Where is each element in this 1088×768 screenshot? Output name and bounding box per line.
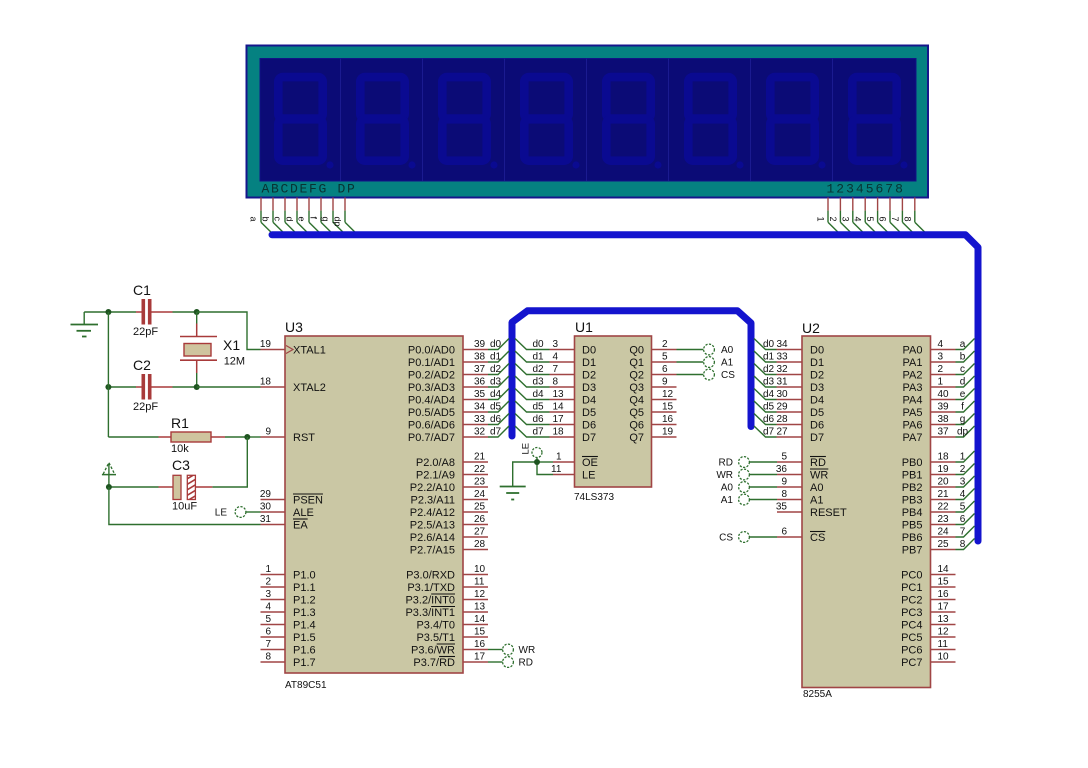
svg-text:33: 33 <box>474 414 486 425</box>
svg-text:D3: D3 <box>810 382 824 394</box>
svg-text:1: 1 <box>265 564 271 575</box>
svg-text:4: 4 <box>553 352 559 363</box>
U2 pin 30 D4 with d4 tap from bus <box>754 389 824 407</box>
svg-text:6: 6 <box>265 627 271 638</box>
U2 pin 22 PB4 with wire 5 to bus <box>902 501 975 519</box>
svg-text:25: 25 <box>938 539 950 550</box>
svg-text:a: a <box>960 339 966 350</box>
svg-text:A0: A0 <box>721 345 734 356</box>
svg-text:d5: d5 <box>490 402 502 413</box>
wire d4 tap U3 P0.4 to bus <box>488 389 509 401</box>
svg-text:PB1: PB1 <box>902 470 923 482</box>
svg-text:P0.2/AD2: P0.2/AD2 <box>408 370 455 382</box>
U1 pin 19 Q7 <box>629 427 676 445</box>
svg-text:5: 5 <box>662 352 668 363</box>
svg-text:dp: dp <box>333 217 343 227</box>
U3 pin 18 XTAL2 <box>260 377 326 395</box>
svg-text:D5: D5 <box>810 407 824 419</box>
terminal WR at U3 P3.6 <box>488 644 535 656</box>
node dot C2 right / crystal bottom <box>194 384 200 390</box>
ppi chip U2 8255A body <box>802 320 931 700</box>
svg-text:PB2: PB2 <box>902 482 923 494</box>
svg-text:6: 6 <box>781 527 787 538</box>
U2 pin 31 D3 with d3 tap from bus <box>754 376 824 394</box>
U2 pin 4 PA0 with wire a to bus <box>903 339 975 357</box>
U3 pin 25 P2.4/A12 <box>410 502 488 520</box>
svg-text:CS: CS <box>719 533 733 544</box>
svg-text:c: c <box>273 217 283 222</box>
svg-text:20: 20 <box>938 477 950 488</box>
svg-text:35: 35 <box>776 502 788 513</box>
svg-text:d: d <box>285 217 295 222</box>
svg-text:Q6: Q6 <box>629 420 644 432</box>
svg-text:D1: D1 <box>810 357 824 369</box>
U3 pin 17 P3.7/RD <box>413 652 488 670</box>
svg-text:WR: WR <box>810 470 828 482</box>
svg-text:Q3: Q3 <box>629 382 644 394</box>
svg-text:PC1: PC1 <box>901 582 922 594</box>
svg-text:XTAL2: XTAL2 <box>293 382 326 394</box>
power terminal arrow <box>102 463 116 487</box>
U1 pin 5 Q1 <box>629 352 676 370</box>
svg-text:PC6: PC6 <box>901 645 922 657</box>
bus arch between U3, U1 and U2 (data bus d0-d7) <box>512 311 751 436</box>
U2 pin 27 D7 with d7 tap from bus <box>754 426 824 444</box>
svg-text:36: 36 <box>474 377 486 388</box>
svg-text:D2: D2 <box>582 370 596 382</box>
display segment pin b with wire to bus <box>261 198 286 235</box>
svg-text:39: 39 <box>938 402 950 413</box>
svg-text:4: 4 <box>938 339 944 350</box>
U3 pin 31 EA <box>260 514 308 532</box>
U3 pin 39 P0.0/AD0 <box>408 339 488 357</box>
svg-text:P1.2: P1.2 <box>293 595 316 607</box>
svg-text:4: 4 <box>960 489 966 500</box>
svg-text:24: 24 <box>938 527 950 538</box>
svg-text:P0.5/AD5: P0.5/AD5 <box>408 407 455 419</box>
U3 pin 3 P1.2 <box>261 589 316 607</box>
svg-text:12: 12 <box>662 389 674 400</box>
7-segment display module DS1 frame <box>247 46 929 198</box>
ground symbol at U1 OE <box>500 487 526 500</box>
svg-text:PA4: PA4 <box>903 395 923 407</box>
svg-text:3: 3 <box>265 589 271 600</box>
svg-text:34: 34 <box>777 339 789 350</box>
svg-text:26: 26 <box>474 514 486 525</box>
terminal CS at U1 Q2 <box>677 369 736 381</box>
U2 pin 6 CS with terminal <box>719 527 825 545</box>
U3 pin 30 ALE <box>260 502 314 520</box>
display digit pin 4 with wire to bus <box>853 198 878 235</box>
svg-text:17: 17 <box>938 602 950 613</box>
svg-text:32: 32 <box>777 364 789 375</box>
U3 pin 13 P3.3/INT1 <box>405 602 488 620</box>
svg-text:19: 19 <box>260 339 272 350</box>
svg-text:D5: D5 <box>582 407 596 419</box>
svg-text:28: 28 <box>474 539 486 550</box>
U3 pin 22 P2.1/A9 <box>416 464 488 482</box>
svg-text:5: 5 <box>960 502 966 513</box>
U1 pin 6 Q2 <box>629 364 676 382</box>
svg-text:C1: C1 <box>133 282 151 298</box>
U2 pin 20 PB2 with wire 3 to bus <box>902 476 975 494</box>
display digit pin 2 with wire to bus <box>828 198 853 235</box>
svg-text:A0: A0 <box>721 483 734 494</box>
U2 pin 13 PC4 <box>901 614 955 632</box>
U2 pin 5 RD with terminal <box>719 452 826 470</box>
display digit 5 segments <box>606 77 661 168</box>
svg-text:22pF: 22pF <box>133 401 158 413</box>
svg-text:17: 17 <box>553 414 565 425</box>
svg-text:d1: d1 <box>490 352 502 363</box>
U3 pin 29 PSEN <box>260 489 323 507</box>
U1 pin 11 LE <box>551 464 595 482</box>
svg-text:Q0: Q0 <box>629 345 644 357</box>
U2 pin 34 D0 with d0 tap from bus <box>754 339 824 357</box>
wire XTAL1 net from crystal node to U3 pin 19 <box>197 312 261 350</box>
U3 pin 11 P3.1/TXD <box>407 577 488 595</box>
svg-text:29: 29 <box>260 489 272 500</box>
U1 pin 15 Q5 <box>629 402 676 420</box>
svg-text:PA2: PA2 <box>903 370 923 382</box>
svg-text:D4: D4 <box>582 395 596 407</box>
svg-text:A1: A1 <box>721 358 734 369</box>
U3 pin 23 P2.2/A10 <box>410 477 488 495</box>
U1 pin 9 Q3 <box>629 377 676 395</box>
svg-text:d2: d2 <box>763 364 775 375</box>
svg-text:D6: D6 <box>582 420 596 432</box>
svg-text:3: 3 <box>960 477 966 488</box>
svg-text:8: 8 <box>902 217 912 222</box>
svg-text:d6: d6 <box>763 414 775 425</box>
svg-text:3: 3 <box>840 217 850 222</box>
svg-text:P2.1/A9: P2.1/A9 <box>416 470 455 482</box>
U3 pin 19 XTAL1 <box>260 339 326 357</box>
U2 pin 38 PA6 with wire g to bus <box>903 414 975 432</box>
svg-text:3: 3 <box>938 352 944 363</box>
terminal LE at U3 ALE pin <box>215 507 261 519</box>
svg-text:CS: CS <box>721 370 735 381</box>
svg-text:P1.3: P1.3 <box>293 607 316 619</box>
resistor R1 10k <box>108 415 247 455</box>
svg-text:16: 16 <box>662 414 674 425</box>
U3 pin 26 P2.5/A13 <box>410 514 488 532</box>
svg-text:7: 7 <box>890 217 900 222</box>
svg-text:D6: D6 <box>810 420 824 432</box>
svg-text:40: 40 <box>938 389 950 400</box>
svg-text:31: 31 <box>260 514 272 525</box>
svg-text:12345678: 12345678 <box>827 182 905 197</box>
display digit pin 5 with wire to bus <box>865 198 890 235</box>
svg-text:EA: EA <box>293 520 308 532</box>
node dot C1 left <box>105 309 111 315</box>
ground symbol (oscillator) <box>71 312 99 337</box>
svg-text:8: 8 <box>553 377 559 388</box>
U3 pin 36 P0.3/AD3 <box>408 377 488 395</box>
svg-text:P3.2/INT0: P3.2/INT0 <box>405 595 455 607</box>
svg-text:4: 4 <box>265 602 271 613</box>
svg-text:18: 18 <box>938 452 950 463</box>
wire ground to node <box>84 311 108 313</box>
U2 pin 33 D1 with d1 tap from bus <box>754 351 824 369</box>
U3 pin 15 P3.5/T1 <box>416 627 488 645</box>
display segment pin e with wire to bus <box>297 198 322 235</box>
svg-text:P1.0: P1.0 <box>293 570 316 582</box>
svg-text:30: 30 <box>777 389 789 400</box>
display digit 1 segments <box>278 77 333 168</box>
svg-text:1: 1 <box>556 452 562 463</box>
svg-text:dp: dp <box>957 427 969 438</box>
svg-text:17: 17 <box>474 652 486 663</box>
svg-text:C3: C3 <box>172 457 190 473</box>
svg-text:P3.6/WR: P3.6/WR <box>411 645 455 657</box>
svg-text:6: 6 <box>662 364 668 375</box>
svg-text:R1: R1 <box>171 415 189 431</box>
U3 pin 10 P3.0/RXD <box>406 564 488 582</box>
display digit 8 segments <box>852 77 907 168</box>
svg-text:PA7: PA7 <box>903 432 923 444</box>
terminal RD at U3 P3.7 <box>488 657 533 669</box>
svg-text:d0: d0 <box>490 339 502 350</box>
U1 pin 18 D7 with d7 tap from bus <box>515 426 596 444</box>
svg-text:18: 18 <box>553 427 565 438</box>
svg-text:12: 12 <box>938 627 950 638</box>
U1 pin 1 OE <box>553 452 598 470</box>
display digit pin 1 with wire to bus <box>816 198 841 235</box>
U3 pin 37 P0.2/AD2 <box>408 364 488 382</box>
U1 pin 17 D6 with d6 tap from bus <box>515 414 596 432</box>
svg-text:d7: d7 <box>763 427 775 438</box>
wire XTAL2 net to U3 pin 18 <box>197 386 261 388</box>
svg-text:1: 1 <box>938 377 944 388</box>
svg-text:d0: d0 <box>763 339 775 350</box>
U2 pin 40 PA4 with wire e to bus <box>903 389 975 407</box>
U2 pin 32 D2 with d2 tap from bus <box>754 364 824 382</box>
svg-text:ALE: ALE <box>293 507 314 519</box>
svg-text:U2: U2 <box>802 320 820 336</box>
wire EA net from power node to U3 pin 31 <box>109 487 261 525</box>
svg-text:P2.2/A10: P2.2/A10 <box>410 482 455 494</box>
U2 pin 39 PA5 with wire f to bus <box>903 401 975 419</box>
svg-text:12M: 12M <box>224 356 245 368</box>
svg-text:P1.7: P1.7 <box>293 657 316 669</box>
terminal A0 at U1 Q0 <box>677 344 734 356</box>
U2 pin 2 PA2 with wire c to bus <box>903 364 975 382</box>
display digit pin 6 with wire to bus <box>878 198 903 235</box>
svg-text:P3.1/TXD: P3.1/TXD <box>407 582 455 594</box>
svg-text:P0.1/AD1: P0.1/AD1 <box>408 357 455 369</box>
svg-text:29: 29 <box>777 402 789 413</box>
svg-text:d4: d4 <box>533 389 545 400</box>
svg-text:P2.6/A14: P2.6/A14 <box>410 532 455 544</box>
svg-text:P0.7/AD7: P0.7/AD7 <box>408 432 455 444</box>
svg-text:37: 37 <box>474 364 486 375</box>
svg-text:Q1: Q1 <box>629 357 644 369</box>
U2 pin 17 PC3 <box>901 602 955 620</box>
svg-text:LE: LE <box>521 443 532 455</box>
svg-text:3: 3 <box>553 339 559 350</box>
svg-text:D7: D7 <box>582 432 596 444</box>
U2 pin 18 PB0 with wire 1 to bus <box>902 451 975 469</box>
svg-text:7: 7 <box>265 639 271 650</box>
svg-text:38: 38 <box>938 414 950 425</box>
svg-text:8: 8 <box>960 539 966 550</box>
svg-text:b: b <box>960 352 966 363</box>
svg-text:RESET: RESET <box>810 507 847 519</box>
svg-text:Q4: Q4 <box>629 395 644 407</box>
svg-text:OE: OE <box>582 457 598 469</box>
svg-text:d6: d6 <box>490 414 502 425</box>
svg-text:11: 11 <box>551 464 562 475</box>
U1 pin 4 D1 with d1 tap from bus <box>515 351 596 369</box>
svg-text:27: 27 <box>474 527 486 538</box>
U2 pin 28 D6 with d6 tap from bus <box>754 414 824 432</box>
svg-text:14: 14 <box>938 564 950 575</box>
svg-text:P0.0/AD0: P0.0/AD0 <box>408 345 455 357</box>
svg-text:U1: U1 <box>575 319 593 335</box>
svg-text:9: 9 <box>662 377 668 388</box>
svg-text:d7: d7 <box>533 427 545 438</box>
display digit cell separators <box>341 59 833 182</box>
U2 pin 12 PC5 <box>901 627 955 645</box>
svg-text:D1: D1 <box>582 357 596 369</box>
display digit pin 7 with wire to bus <box>890 198 915 235</box>
svg-text:PC4: PC4 <box>901 620 922 632</box>
capacitor C3 10uF polarized <box>109 457 212 513</box>
svg-text:A0: A0 <box>810 482 823 494</box>
U3 pin 5 P1.4 <box>261 614 316 632</box>
display digit 4 segments <box>524 77 579 168</box>
U3 pin 24 P2.3/A11 <box>411 489 488 507</box>
svg-text:P1.4: P1.4 <box>293 620 316 632</box>
svg-text:34: 34 <box>474 402 486 413</box>
svg-text:PB5: PB5 <box>902 520 923 532</box>
svg-text:13: 13 <box>474 602 486 613</box>
U3 pin 27 P2.6/A14 <box>410 527 488 545</box>
svg-text:RD: RD <box>719 458 733 469</box>
U1 pin 12 Q4 <box>629 389 676 407</box>
svg-text:LE: LE <box>215 508 228 519</box>
svg-text:d2: d2 <box>533 364 545 375</box>
svg-text:XTAL1: XTAL1 <box>293 345 326 357</box>
display segment pin g with wire to bus <box>321 198 346 235</box>
svg-text:PA6: PA6 <box>903 420 923 432</box>
svg-text:6: 6 <box>960 514 966 525</box>
terminal A1 at U1 Q1 <box>677 357 734 369</box>
U3 pin 33 P0.6/AD6 <box>408 414 488 432</box>
U2 pin 16 PC2 <box>901 589 955 607</box>
U2 pin 23 PB5 with wire 6 to bus <box>902 514 975 532</box>
svg-text:22: 22 <box>938 502 950 513</box>
wire RST node down to C3 <box>212 437 247 487</box>
svg-text:P0.4/AD4: P0.4/AD4 <box>408 395 455 407</box>
svg-text:P3.7/RD: P3.7/RD <box>413 657 455 669</box>
svg-text:P3.3/INT1: P3.3/INT1 <box>405 607 455 619</box>
svg-text:P3.0/RXD: P3.0/RXD <box>406 570 455 582</box>
svg-text:5: 5 <box>865 217 875 222</box>
U2 pin 8 A1 with terminal <box>721 489 824 507</box>
U2 pin 1 PA3 with wire d to bus <box>903 376 975 394</box>
U2 pin 9 A0 with terminal <box>721 477 824 495</box>
svg-text:35: 35 <box>474 389 486 400</box>
svg-text:LE: LE <box>582 470 595 482</box>
U3 pin 1 P1.0 <box>261 564 316 582</box>
svg-text:14: 14 <box>474 614 486 625</box>
U3 pin 38 P0.1/AD1 <box>408 352 488 370</box>
U1 pin 8 D3 with d3 tap from bus <box>515 376 596 394</box>
node dot RST <box>244 434 250 440</box>
svg-text:U3: U3 <box>285 319 303 335</box>
svg-text:6: 6 <box>878 217 888 222</box>
svg-text:c: c <box>960 364 965 375</box>
U3 pin 7 P1.6 <box>261 639 316 657</box>
svg-text:P1.5: P1.5 <box>293 632 316 644</box>
svg-text:16: 16 <box>938 589 950 600</box>
svg-text:d3: d3 <box>533 377 545 388</box>
svg-text:d6: d6 <box>533 414 545 425</box>
node dot C2 left <box>105 384 111 390</box>
op chip U3 AT89C51 body <box>285 319 463 691</box>
svg-text:1: 1 <box>816 217 826 222</box>
svg-text:d4: d4 <box>763 389 775 400</box>
display digit pin 8 with wire to bus <box>902 198 927 235</box>
svg-text:13: 13 <box>938 614 950 625</box>
U2 pin 21 PB3 with wire 4 to bus <box>902 489 975 507</box>
svg-text:PA1: PA1 <box>903 357 923 369</box>
display digit 6 segments <box>688 77 743 168</box>
svg-text:PB6: PB6 <box>902 532 923 544</box>
svg-text:74LS373: 74LS373 <box>574 492 614 503</box>
U1 pin 16 Q6 <box>629 414 676 432</box>
svg-text:2: 2 <box>960 464 966 475</box>
U2 pin 37 PA7 with wire dp to bus <box>903 426 975 444</box>
wire d1 tap U3 P0.1 to bus <box>488 351 509 363</box>
wire d6 tap U3 P0.6 to bus <box>488 414 509 426</box>
svg-text:b: b <box>261 217 271 222</box>
svg-text:10uF: 10uF <box>172 501 197 513</box>
U1 pin 2 Q0 <box>629 339 676 357</box>
svg-text:24: 24 <box>474 489 486 500</box>
svg-text:PC7: PC7 <box>901 657 922 669</box>
display segment pin c with wire to bus <box>273 198 298 235</box>
U1 pin 7 D2 with d2 tap from bus <box>515 364 596 382</box>
svg-text:15: 15 <box>474 627 486 638</box>
U3 pin 35 P0.4/AD4 <box>408 389 488 407</box>
svg-text:D2: D2 <box>810 370 824 382</box>
svg-text:RD: RD <box>519 658 533 669</box>
U3 pin 32 P0.7/AD7 <box>408 427 488 445</box>
svg-text:28: 28 <box>777 414 789 425</box>
svg-text:A1: A1 <box>810 495 823 507</box>
svg-text:37: 37 <box>938 427 950 438</box>
U3 pin 16 P3.6/WR <box>411 639 488 657</box>
svg-text:RST: RST <box>293 432 315 444</box>
svg-text:10: 10 <box>474 564 486 575</box>
U2 pin 36 WR with terminal <box>716 464 828 482</box>
svg-text:10k: 10k <box>171 443 189 455</box>
bus from display to U2 (top horizontal and right vertical) <box>272 235 978 541</box>
wire RST net to U3 pin 9 <box>247 436 260 438</box>
svg-text:D3: D3 <box>582 382 596 394</box>
svg-text:AT89C51: AT89C51 <box>285 680 327 691</box>
svg-text:12: 12 <box>474 589 486 600</box>
svg-text:D7: D7 <box>810 432 824 444</box>
svg-text:P2.0/A8: P2.0/A8 <box>416 457 455 469</box>
svg-text:PC2: PC2 <box>901 595 922 607</box>
display digit 3 segments <box>442 77 497 168</box>
crystal X1 12M <box>180 312 245 387</box>
svg-text:PSEN: PSEN <box>293 495 323 507</box>
